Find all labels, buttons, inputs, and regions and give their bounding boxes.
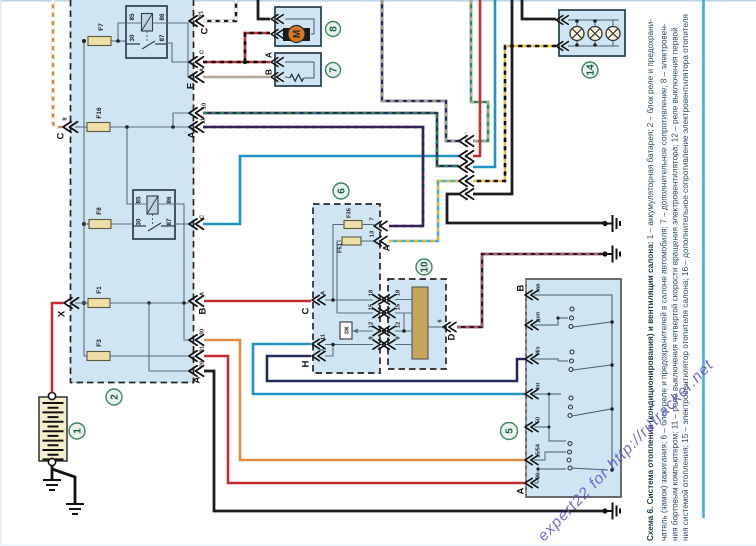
svg-text:ЗЖ: ЗЖ bbox=[345, 326, 351, 334]
lamp 3 bbox=[606, 27, 620, 41]
ground battery 1 bbox=[43, 480, 61, 490]
svg-text:A: A bbox=[187, 131, 198, 138]
wire cyan Int from block 6 to switch bbox=[253, 344, 525, 394]
fuse F3 bbox=[87, 339, 110, 361]
fuse F7 bbox=[88, 23, 111, 46]
connector A pin 26 black bbox=[189, 360, 206, 383]
junction F1 line tap 30 bbox=[182, 301, 186, 305]
fuse F1 bbox=[88, 286, 110, 308]
lamp 2 bbox=[588, 27, 602, 41]
wire relay K1 86 to connector E bbox=[167, 23, 189, 77]
svg-text:87: 87 bbox=[159, 34, 166, 42]
block 5 right bus bbox=[534, 295, 612, 470]
block 5 border bbox=[526, 279, 621, 497]
label circle 1 bbox=[69, 423, 85, 439]
label circle 7 bbox=[326, 63, 341, 78]
wire resistor to pin 6 bbox=[428, 326, 443, 328]
block 6 dashed border bbox=[313, 204, 380, 373]
label circle 8 bbox=[326, 22, 341, 37]
resistor connector arrows A and B bbox=[264, 52, 284, 81]
connector A pin 31 red bbox=[189, 345, 206, 361]
block 6 connector pin 13 bbox=[370, 230, 392, 251]
junction F16/relay tap bbox=[125, 125, 129, 129]
block 6 fuse box fill bbox=[313, 204, 380, 373]
svg-text:ния бортовым компьютером; 11 –: ния бортовым компьютером; 11 – реле выкл… bbox=[671, 27, 680, 541]
resistor element block 10 bbox=[412, 287, 428, 359]
junction purple ground bbox=[602, 251, 607, 256]
svg-text:86: 86 bbox=[159, 13, 166, 21]
label circle 14 bbox=[582, 62, 598, 78]
relay K2 coil leads bbox=[133, 203, 175, 205]
wire F35 feed from pin A row bbox=[333, 225, 344, 300]
wire orange-white from top edge to connector C8 bbox=[53, 0, 62, 127]
wire navy from block 6 to switch bbox=[267, 356, 525, 381]
immobilizer box bbox=[340, 322, 352, 339]
svg-text:13: 13 bbox=[370, 230, 376, 237]
block 5 connector 30 bbox=[516, 473, 542, 495]
relay K2 switch bbox=[133, 223, 175, 231]
wire navy-gray dashed from top to connector column bbox=[382, 0, 459, 141]
wire battery negative black bbox=[52, 466, 75, 504]
wire black to motor connector bbox=[258, 0, 270, 19]
wire relay K2 87 to connector C cyan bbox=[175, 223, 189, 225]
junction black ground bbox=[602, 221, 607, 226]
label circle 5 bbox=[501, 423, 518, 440]
junction on row A bbox=[331, 298, 335, 302]
junction at tap A10 bbox=[171, 125, 175, 129]
switch contact group 2 bbox=[534, 359, 611, 370]
block 5 harness dashed edge bbox=[525, 280, 527, 496]
wire red 31 to ignition switch 30 bbox=[204, 356, 525, 483]
svg-text:30: 30 bbox=[129, 34, 136, 42]
svg-text:М/з: М/з bbox=[536, 346, 542, 355]
svg-text:M: M bbox=[292, 30, 303, 38]
wire relay K1 87 to connector C bbox=[167, 43, 189, 62]
block 10 internal link bbox=[403, 313, 405, 331]
wire F1 output to connector B bbox=[110, 302, 189, 304]
wire red from top bbox=[473, 0, 480, 156]
wire tap down to connector A26 bbox=[149, 303, 189, 371]
svg-text:85: 85 bbox=[136, 196, 143, 204]
ground for black wire bbox=[606, 215, 620, 232]
motor connector arrows bbox=[271, 15, 283, 39]
svg-text:C: C bbox=[200, 27, 211, 34]
fuse F16 bbox=[87, 107, 110, 131]
connector C8 on block 2 left bbox=[56, 117, 78, 140]
svg-text:A: A bbox=[192, 376, 203, 383]
block 5 connector zав bbox=[516, 283, 542, 300]
connector C cyan bbox=[189, 214, 206, 229]
svg-text:14: 14 bbox=[586, 64, 597, 76]
block 5 connector Int bbox=[525, 382, 542, 398]
svg-text:50: 50 bbox=[536, 417, 542, 423]
block 6 connector H pin 1 bbox=[301, 348, 326, 368]
junction on bus at F8 bbox=[82, 222, 86, 226]
wire cyan from top bbox=[473, 0, 495, 167]
wire black from connector column to ground bbox=[447, 194, 605, 223]
relay K2 coil bbox=[147, 196, 158, 214]
ground for bottom bus bbox=[606, 503, 620, 520]
svg-text:F7: F7 bbox=[98, 23, 105, 31]
wire 10 navy-green dashed bbox=[203, 113, 459, 166]
svg-text:Int: Int bbox=[536, 382, 542, 389]
junction bottom ground bbox=[602, 508, 607, 513]
connector column chevrons 1-5 bbox=[459, 136, 474, 199]
svg-text:5: 5 bbox=[505, 428, 516, 434]
wire F16 output to connector A11 bbox=[110, 126, 189, 128]
svg-text:30: 30 bbox=[136, 218, 143, 226]
svg-text:X: X bbox=[57, 310, 68, 317]
wire F8 to relay K2 30 bbox=[111, 223, 133, 225]
block 2 dashed border bbox=[71, 0, 194, 383]
connector A pin 30 orange bbox=[189, 329, 206, 345]
wire tap to connector A10 bbox=[173, 113, 189, 127]
block 5 connector М-з bbox=[525, 346, 542, 363]
svg-text:21: 21 bbox=[199, 10, 205, 17]
wire cyan-yellow dashed connector column to block 6 pin 13 bbox=[389, 181, 459, 241]
svg-text:E: E bbox=[186, 83, 197, 89]
svg-text:D: D bbox=[447, 333, 458, 340]
wire orange to ignition switch 15-54 bbox=[204, 340, 525, 460]
svg-text:2: 2 bbox=[110, 394, 121, 400]
svg-text:12: 12 bbox=[369, 322, 375, 328]
svg-text:31: 31 bbox=[200, 345, 206, 352]
block 2 relay-fuse box fill bbox=[70, 0, 194, 383]
svg-text:A: A bbox=[516, 487, 527, 494]
relay K1 box bbox=[126, 6, 167, 58]
wire black from top to connector column bbox=[473, 0, 512, 194]
wire yellow-black dashed lamp to connector column bbox=[473, 46, 556, 181]
block 5 connector 50 bbox=[525, 417, 542, 432]
svg-text:1: 1 bbox=[73, 428, 84, 434]
svg-text:F51: F51 bbox=[338, 242, 344, 253]
ignition switch block 5 fill bbox=[526, 279, 621, 497]
ground for purple wire bbox=[606, 246, 620, 263]
lamp box connector arrows bbox=[556, 16, 568, 51]
wire relay K2 86 down to pin 30 row bbox=[175, 204, 189, 340]
svg-text:ния системой отопления; 15 – э: ния системой отопления; 15 – электровент… bbox=[681, 14, 690, 541]
block 5 connector доп bbox=[525, 312, 542, 330]
svg-text:30: 30 bbox=[200, 329, 206, 335]
bowtie connector row 18 bbox=[369, 289, 402, 304]
svg-text:18: 18 bbox=[396, 289, 402, 296]
wire battery positive red bbox=[52, 303, 63, 393]
wire F51 feed down to row 15 bbox=[337, 241, 342, 313]
svg-text:доп: доп bbox=[536, 312, 542, 322]
wire black from top to lamp box bbox=[522, 0, 556, 19]
relay K2 actuation link bbox=[152, 214, 154, 224]
block 6 connector A red input bbox=[301, 290, 327, 314]
arrow line row 12 to immobilizer bbox=[354, 330, 373, 332]
resistor box 7 bbox=[275, 53, 321, 86]
svg-text:B: B bbox=[198, 307, 209, 314]
relay K1 coil leads bbox=[126, 22, 167, 24]
wire purple-pink dashed from block 10 D to ground bbox=[457, 254, 605, 327]
svg-text:A: A bbox=[382, 244, 392, 251]
lamp 1 bbox=[570, 27, 584, 41]
page top edge line bbox=[0, 0, 756, 2]
svg-text:18: 18 bbox=[369, 289, 375, 296]
block 10 resistor box fill bbox=[388, 279, 446, 369]
svg-text:B: B bbox=[516, 284, 527, 291]
block 10 dashed border bbox=[388, 279, 446, 369]
svg-text:7: 7 bbox=[329, 67, 340, 73]
caption rule line bbox=[702, 0, 705, 518]
page left edge line bbox=[0, 0, 1, 546]
ground battery 2 bbox=[66, 504, 84, 514]
wire black-white dashed from connector C21 bbox=[203, 0, 236, 21]
block 6 internal row 15 bbox=[337, 312, 373, 314]
connector C pin C red bbox=[189, 49, 206, 67]
svg-text:30: 30 bbox=[536, 473, 542, 479]
svg-text:11: 11 bbox=[321, 333, 327, 340]
lamp box 14 bbox=[559, 10, 625, 56]
svg-text:15: 15 bbox=[396, 303, 402, 310]
svg-text:15: 15 bbox=[369, 303, 375, 310]
switch contact group 3 bbox=[534, 394, 611, 441]
supply bus wire inside block 2 bbox=[83, 41, 85, 356]
svg-text:7: 7 bbox=[370, 217, 376, 220]
svg-text:6: 6 bbox=[337, 188, 348, 194]
svg-text:F8: F8 bbox=[96, 207, 103, 215]
svg-text:B: B bbox=[264, 69, 274, 75]
svg-text:8: 8 bbox=[329, 26, 340, 32]
wire bus to F3 bbox=[84, 355, 87, 357]
svg-text:12: 12 bbox=[396, 322, 402, 328]
bowtie connector row 12 bbox=[369, 322, 402, 336]
svg-text:F35: F35 bbox=[347, 207, 353, 218]
relay K2 box bbox=[133, 190, 175, 239]
wire F7 to relay K1 pin 30 bbox=[111, 40, 126, 42]
svg-text:26: 26 bbox=[200, 360, 206, 367]
relay K1 coil bbox=[142, 14, 153, 32]
wire X connector to F1 bbox=[75, 302, 88, 304]
page bottom edge line bbox=[0, 545, 756, 546]
junction block 10 link bbox=[402, 329, 406, 333]
harness boundary dashed line at connector column bbox=[465, 132, 467, 203]
svg-text:F3: F3 bbox=[96, 339, 103, 347]
bowtie connector row 9 bbox=[369, 336, 402, 350]
svg-text:A: A bbox=[264, 52, 274, 58]
wire black 26 to ground bus bbox=[204, 371, 605, 511]
wire gray to resistor B bbox=[203, 76, 270, 79]
relay K1 actuation link bbox=[146, 31, 148, 42]
fuse F35 bbox=[344, 207, 362, 228]
wire F16 to relay K2 coil 85 bbox=[127, 127, 133, 204]
svg-text:15/54: 15/54 bbox=[536, 443, 542, 458]
connector B pin A red bbox=[189, 291, 209, 314]
switch contact group 4 bbox=[534, 427, 608, 483]
fuse F51 bbox=[338, 237, 362, 253]
block 6 connector H pin 11 bbox=[312, 333, 327, 349]
block 6 internal pin1 link bbox=[325, 345, 333, 357]
svg-text:зав: зав bbox=[536, 283, 542, 293]
relay K1 switch bbox=[126, 41, 167, 49]
svg-text:C: C bbox=[56, 132, 67, 139]
svg-text:87: 87 bbox=[166, 218, 173, 226]
connector C pin 21 on block 2 right bbox=[189, 10, 211, 34]
svg-text:H: H bbox=[301, 360, 312, 367]
label circle 10 bbox=[416, 259, 432, 275]
svg-text:чатель (замок) зажигания; 6 –: чатель (замок) зажигания; 6 – блок реле … bbox=[660, 23, 669, 541]
block 10 internal rows to resistor bbox=[395, 300, 412, 345]
wire connector C8 to F16 bbox=[75, 126, 87, 128]
wire bus to F8 bbox=[84, 223, 89, 225]
svg-text:Схема 6. Система отопления (ко: Схема 6. Система отопления (кондициониро… bbox=[646, 19, 655, 541]
wire F35 to pin 7 bbox=[362, 224, 374, 226]
block 6 internal row 9 bbox=[325, 344, 373, 346]
svg-text:F16: F16 bbox=[96, 107, 103, 119]
svg-text:C: C bbox=[301, 307, 312, 314]
wire red-black dashed from connector C to motor and resistor bbox=[203, 33, 270, 64]
svg-text:11: 11 bbox=[201, 117, 207, 124]
wire tap to relay K1 coil 85 bbox=[118, 23, 126, 41]
bowtie connector row 15 bbox=[369, 303, 402, 318]
svg-text:86: 86 bbox=[166, 196, 173, 204]
switch contact group 1 bbox=[534, 318, 611, 327]
block 6 connector pin 7 bbox=[370, 217, 388, 230]
motor box 8 bbox=[275, 7, 321, 46]
wire green-gray dashed from top bbox=[471, 0, 488, 141]
block 5 connector 15-54 bbox=[525, 443, 542, 465]
fuse F8 bbox=[89, 207, 111, 229]
wire cyan long from relay K2 to connector column bbox=[203, 156, 459, 224]
svg-text:10: 10 bbox=[420, 261, 431, 273]
wire 11 purple-navy dashed to block 6 pin 7 bbox=[203, 127, 423, 226]
connector A pin 10 bbox=[189, 103, 208, 118]
junction on bus at F7 bbox=[82, 39, 86, 43]
block 10 connector pin 6 D bbox=[438, 319, 458, 341]
battery 1 bbox=[39, 392, 67, 465]
svg-text:85: 85 bbox=[129, 13, 136, 21]
junction at F7 output bbox=[116, 39, 120, 43]
label circle 2 bbox=[106, 389, 122, 405]
junction F1 line tap 26 bbox=[147, 301, 151, 305]
svg-text:10: 10 bbox=[202, 103, 208, 109]
connector E pin A bbox=[186, 67, 206, 89]
block 6 internal row A to 18 bbox=[325, 299, 373, 301]
bus junctions bbox=[610, 320, 614, 472]
wire red B-A block2 to block 6 bbox=[204, 300, 311, 303]
connector A pin 11 bbox=[187, 117, 207, 138]
label circle 6 bbox=[333, 183, 349, 199]
wire F3 to connector A31 bbox=[110, 355, 189, 357]
svg-text:F1: F1 bbox=[96, 286, 103, 294]
connector X on block 2 left bbox=[57, 298, 79, 317]
wire F51 to pin 13 bbox=[361, 240, 374, 242]
junction on bus at F1 bbox=[82, 301, 86, 305]
junction pin1 link bbox=[331, 343, 335, 347]
